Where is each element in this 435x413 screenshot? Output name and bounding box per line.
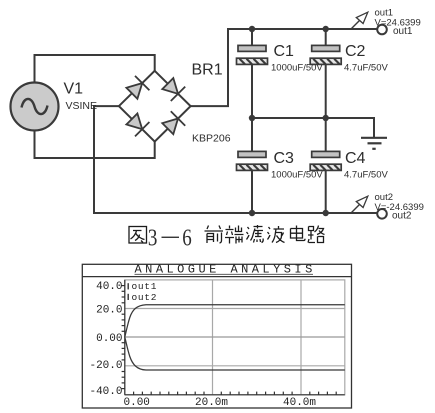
plot area border bbox=[125, 280, 345, 395]
glyph 路 bbox=[308, 226, 325, 243]
svg-text:out1: out1 bbox=[393, 26, 413, 37]
gridline x=20m bbox=[212, 280, 214, 395]
terminal out1 bbox=[377, 25, 413, 37]
x axis labels bbox=[124, 397, 317, 409]
wire top rail bbox=[228, 28, 377, 30]
gridline x=40m bbox=[300, 280, 302, 395]
chart outer frame bbox=[82, 264, 351, 408]
svg-text:C4: C4 bbox=[345, 150, 366, 167]
svg-text:40.0m: 40.0m bbox=[283, 397, 316, 409]
capacitor C4 bbox=[310, 150, 388, 181]
wire bottom rail bbox=[94, 212, 377, 214]
wire V1 top to bridge top vertex bbox=[35, 55, 155, 83]
junction mid rail at C2/C4 bbox=[323, 115, 329, 121]
voltage source V1 bbox=[11, 81, 98, 131]
svg-text:-20.0: -20.0 bbox=[89, 360, 122, 372]
svg-text:BR1: BR1 bbox=[192, 62, 223, 79]
terminal out2 bbox=[377, 209, 412, 222]
svg-text:out2: out2 bbox=[132, 292, 158, 303]
y axis labels bbox=[89, 281, 122, 398]
wire bridge left vertex down to bottom rail bbox=[94, 106, 119, 213]
caption: 图3-6 前端滤波电路 (drawn glyphs) bbox=[129, 225, 325, 244]
x axis bbox=[125, 392, 345, 395]
junction bottom rail at C3 bbox=[249, 210, 255, 216]
junction top rail at C2 bbox=[323, 26, 329, 32]
legend out2 bbox=[128, 294, 129, 300]
gridline y=-20 bbox=[125, 365, 345, 367]
svg-text:3: 3 bbox=[148, 223, 157, 251]
svg-text:-40.0: -40.0 bbox=[89, 386, 122, 398]
chart title separator bbox=[82, 276, 351, 278]
svg-text:4.7uF/50V: 4.7uF/50V bbox=[344, 170, 388, 181]
trace out1 bbox=[125, 305, 345, 337]
gridline y=20 bbox=[125, 308, 345, 310]
gridline y=0 bbox=[125, 336, 345, 338]
glyph 电 bbox=[291, 226, 306, 241]
diode D-BR of BR1 bbox=[162, 111, 185, 134]
wire bridge right vertex up to top rail bbox=[191, 29, 228, 106]
capacitor C1 bbox=[237, 43, 324, 74]
diode D-TL of BR1 bbox=[126, 76, 149, 99]
wire C4 stubs bbox=[325, 118, 327, 213]
capacitor C2 bbox=[310, 43, 388, 74]
svg-text:20.0: 20.0 bbox=[96, 305, 122, 317]
svg-text:out2: out2 bbox=[392, 211, 412, 222]
svg-text:C1: C1 bbox=[274, 43, 295, 60]
glyph 波 bbox=[268, 226, 285, 243]
junction bottom rail at C4 bbox=[323, 210, 329, 216]
diode D-TR of BR1 bbox=[162, 78, 185, 101]
svg-text:VSINE: VSINE bbox=[66, 100, 98, 112]
legend out1 bbox=[128, 283, 129, 289]
wire middle rail to ground bbox=[252, 118, 374, 137]
ground bbox=[361, 138, 387, 149]
glyph 前 (placeholder positions for digits follow) bbox=[205, 226, 224, 244]
svg-text:4.7uF/50V: 4.7uF/50V bbox=[344, 63, 388, 74]
svg-text:V1: V1 bbox=[64, 81, 84, 98]
glyph 滤 bbox=[247, 225, 264, 243]
wire C2 stubs bbox=[325, 29, 327, 118]
svg-text:C3: C3 bbox=[274, 150, 295, 167]
svg-text:out1: out1 bbox=[132, 281, 158, 292]
glyph 端 bbox=[225, 226, 244, 244]
junction mid rail at C1/C3 bbox=[249, 115, 255, 121]
wire C1 stubs bbox=[251, 29, 253, 118]
svg-text:20.0m: 20.0m bbox=[195, 397, 228, 409]
svg-text:KBP206: KBP206 bbox=[192, 133, 231, 145]
probe out1 bbox=[351, 8, 421, 30]
diode D-BL of BR1 bbox=[126, 114, 149, 137]
y axis bbox=[122, 280, 125, 395]
wire V1 bottom to bridge bottom vertex bbox=[35, 130, 155, 158]
probe out2 bbox=[351, 192, 424, 213]
svg-text:6: 6 bbox=[182, 223, 191, 251]
wire C3 stubs bbox=[251, 118, 253, 213]
bridge rectifier BR1 bbox=[119, 71, 191, 142]
junction top rail at C1 bbox=[249, 26, 255, 32]
svg-text:40.0: 40.0 bbox=[96, 281, 122, 293]
svg-text:C2: C2 bbox=[345, 43, 366, 60]
trace out2 bbox=[125, 337, 345, 370]
svg-text:0.00: 0.00 bbox=[124, 397, 150, 409]
glyph 图 bbox=[129, 227, 147, 244]
capacitor C3 bbox=[237, 150, 324, 181]
svg-text:0.00: 0.00 bbox=[96, 333, 122, 345]
